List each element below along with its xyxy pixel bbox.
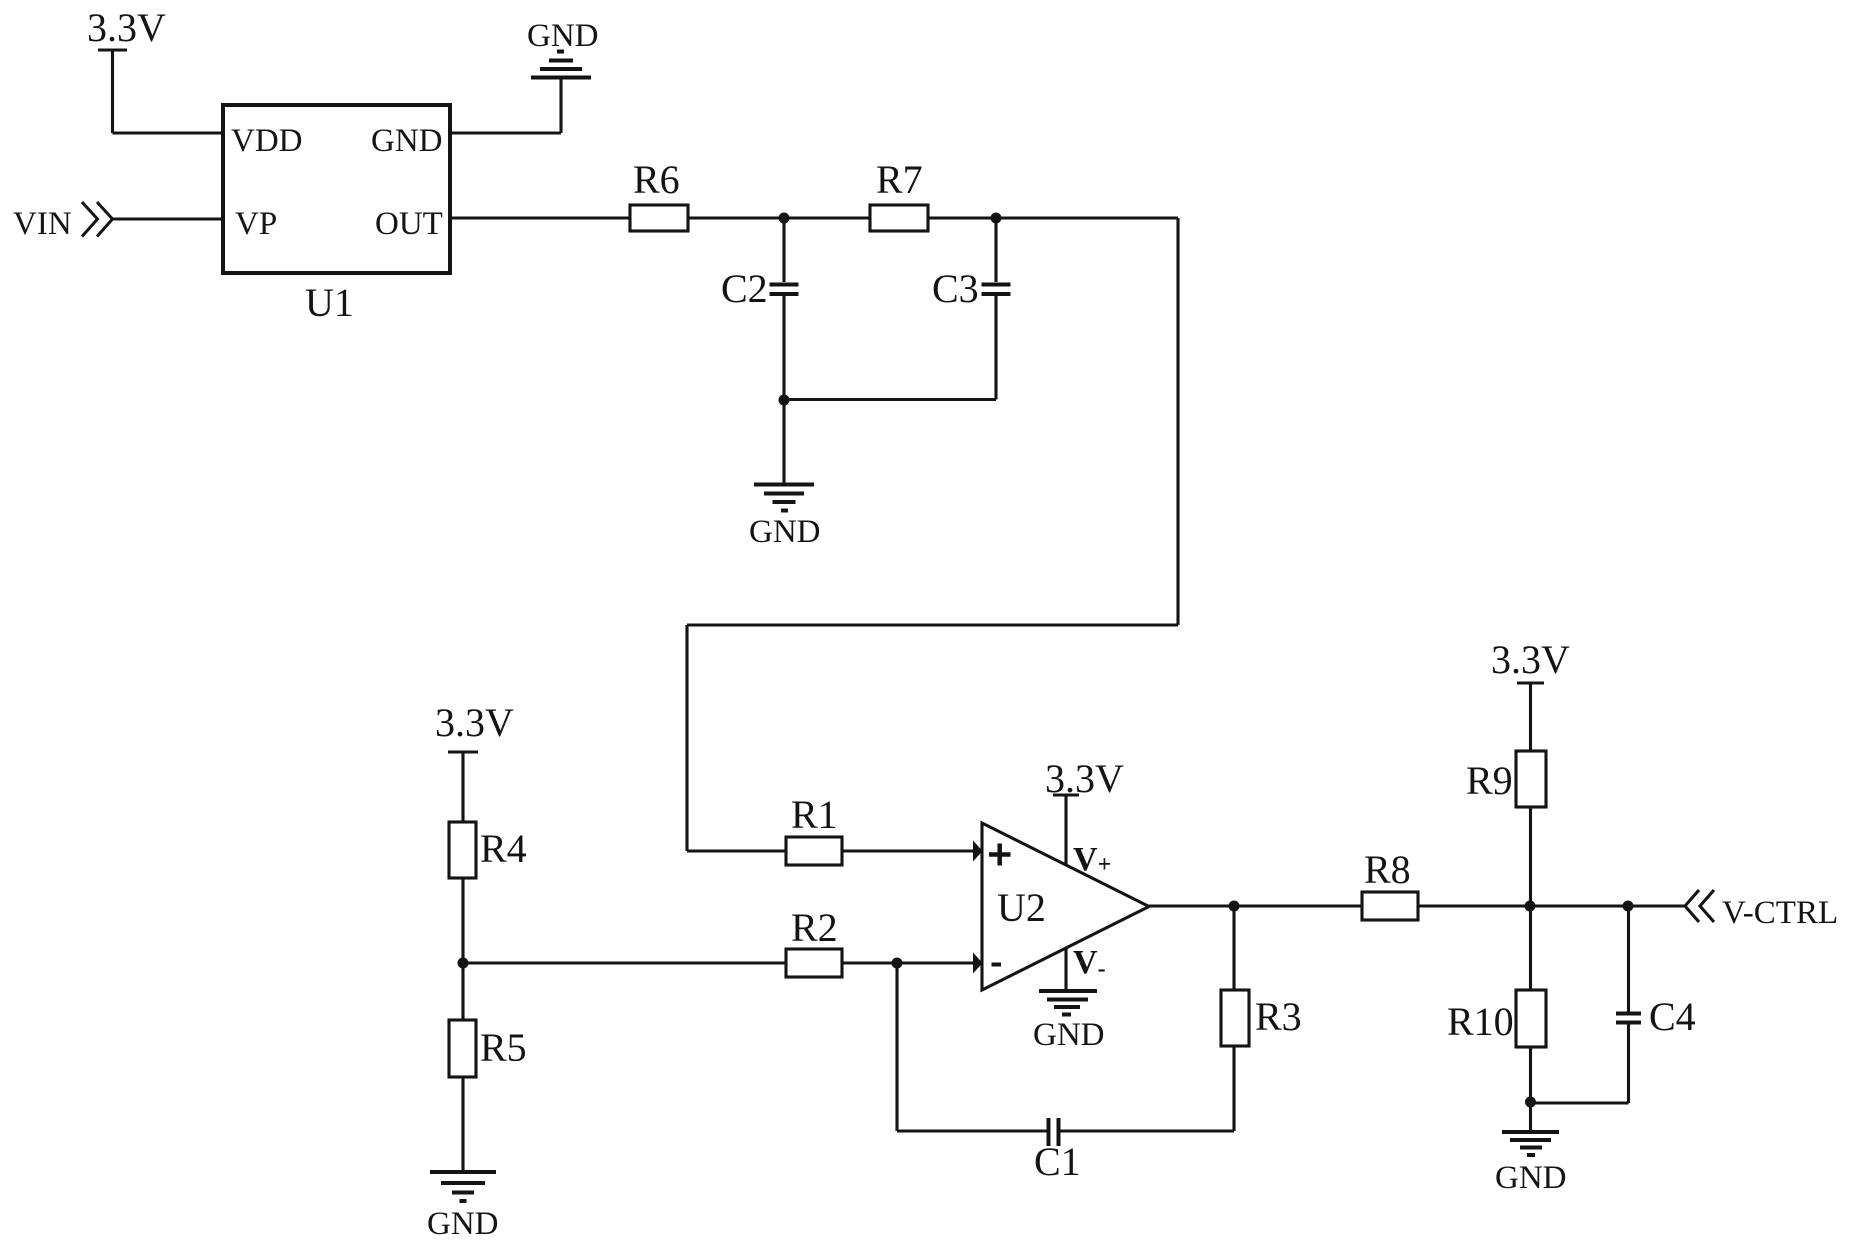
svg-text:U2: U2: [997, 885, 1046, 930]
svg-text:GND: GND: [749, 514, 821, 550]
svg-text:R10: R10: [1447, 999, 1514, 1044]
svg-text:GND: GND: [527, 18, 599, 54]
svg-text:R3: R3: [1255, 994, 1302, 1039]
svg-text:VDD: VDD: [231, 123, 303, 159]
svg-text:GND: GND: [1033, 1017, 1105, 1053]
svg-text:R9: R9: [1466, 758, 1513, 803]
svg-text:3.3V: 3.3V: [435, 700, 514, 745]
svg-text:R8: R8: [1364, 847, 1411, 892]
svg-text:V-CTRL: V-CTRL: [1722, 895, 1838, 931]
svg-text:3.3V: 3.3V: [87, 5, 166, 50]
svg-text:GND: GND: [371, 123, 443, 159]
svg-text:R2: R2: [791, 905, 838, 950]
svg-text:R5: R5: [480, 1025, 527, 1070]
svg-text:GND: GND: [1495, 1160, 1567, 1196]
svg-text:3.3V: 3.3V: [1045, 756, 1124, 801]
svg-text:VP: VP: [235, 206, 277, 242]
svg-text:C3: C3: [932, 266, 979, 311]
svg-text:R6: R6: [633, 157, 680, 202]
svg-text:OUT: OUT: [375, 206, 443, 242]
svg-text:C2: C2: [721, 266, 768, 311]
svg-text:R4: R4: [480, 826, 527, 871]
svg-text:3.3V: 3.3V: [1491, 637, 1570, 682]
svg-text:VIN: VIN: [13, 206, 72, 242]
svg-text:U1: U1: [305, 280, 354, 325]
svg-text:C4: C4: [1649, 994, 1696, 1039]
svg-text:GND: GND: [427, 1206, 499, 1242]
svg-text:C1: C1: [1034, 1139, 1081, 1184]
svg-text:R1: R1: [791, 792, 838, 837]
svg-text:R7: R7: [876, 157, 923, 202]
